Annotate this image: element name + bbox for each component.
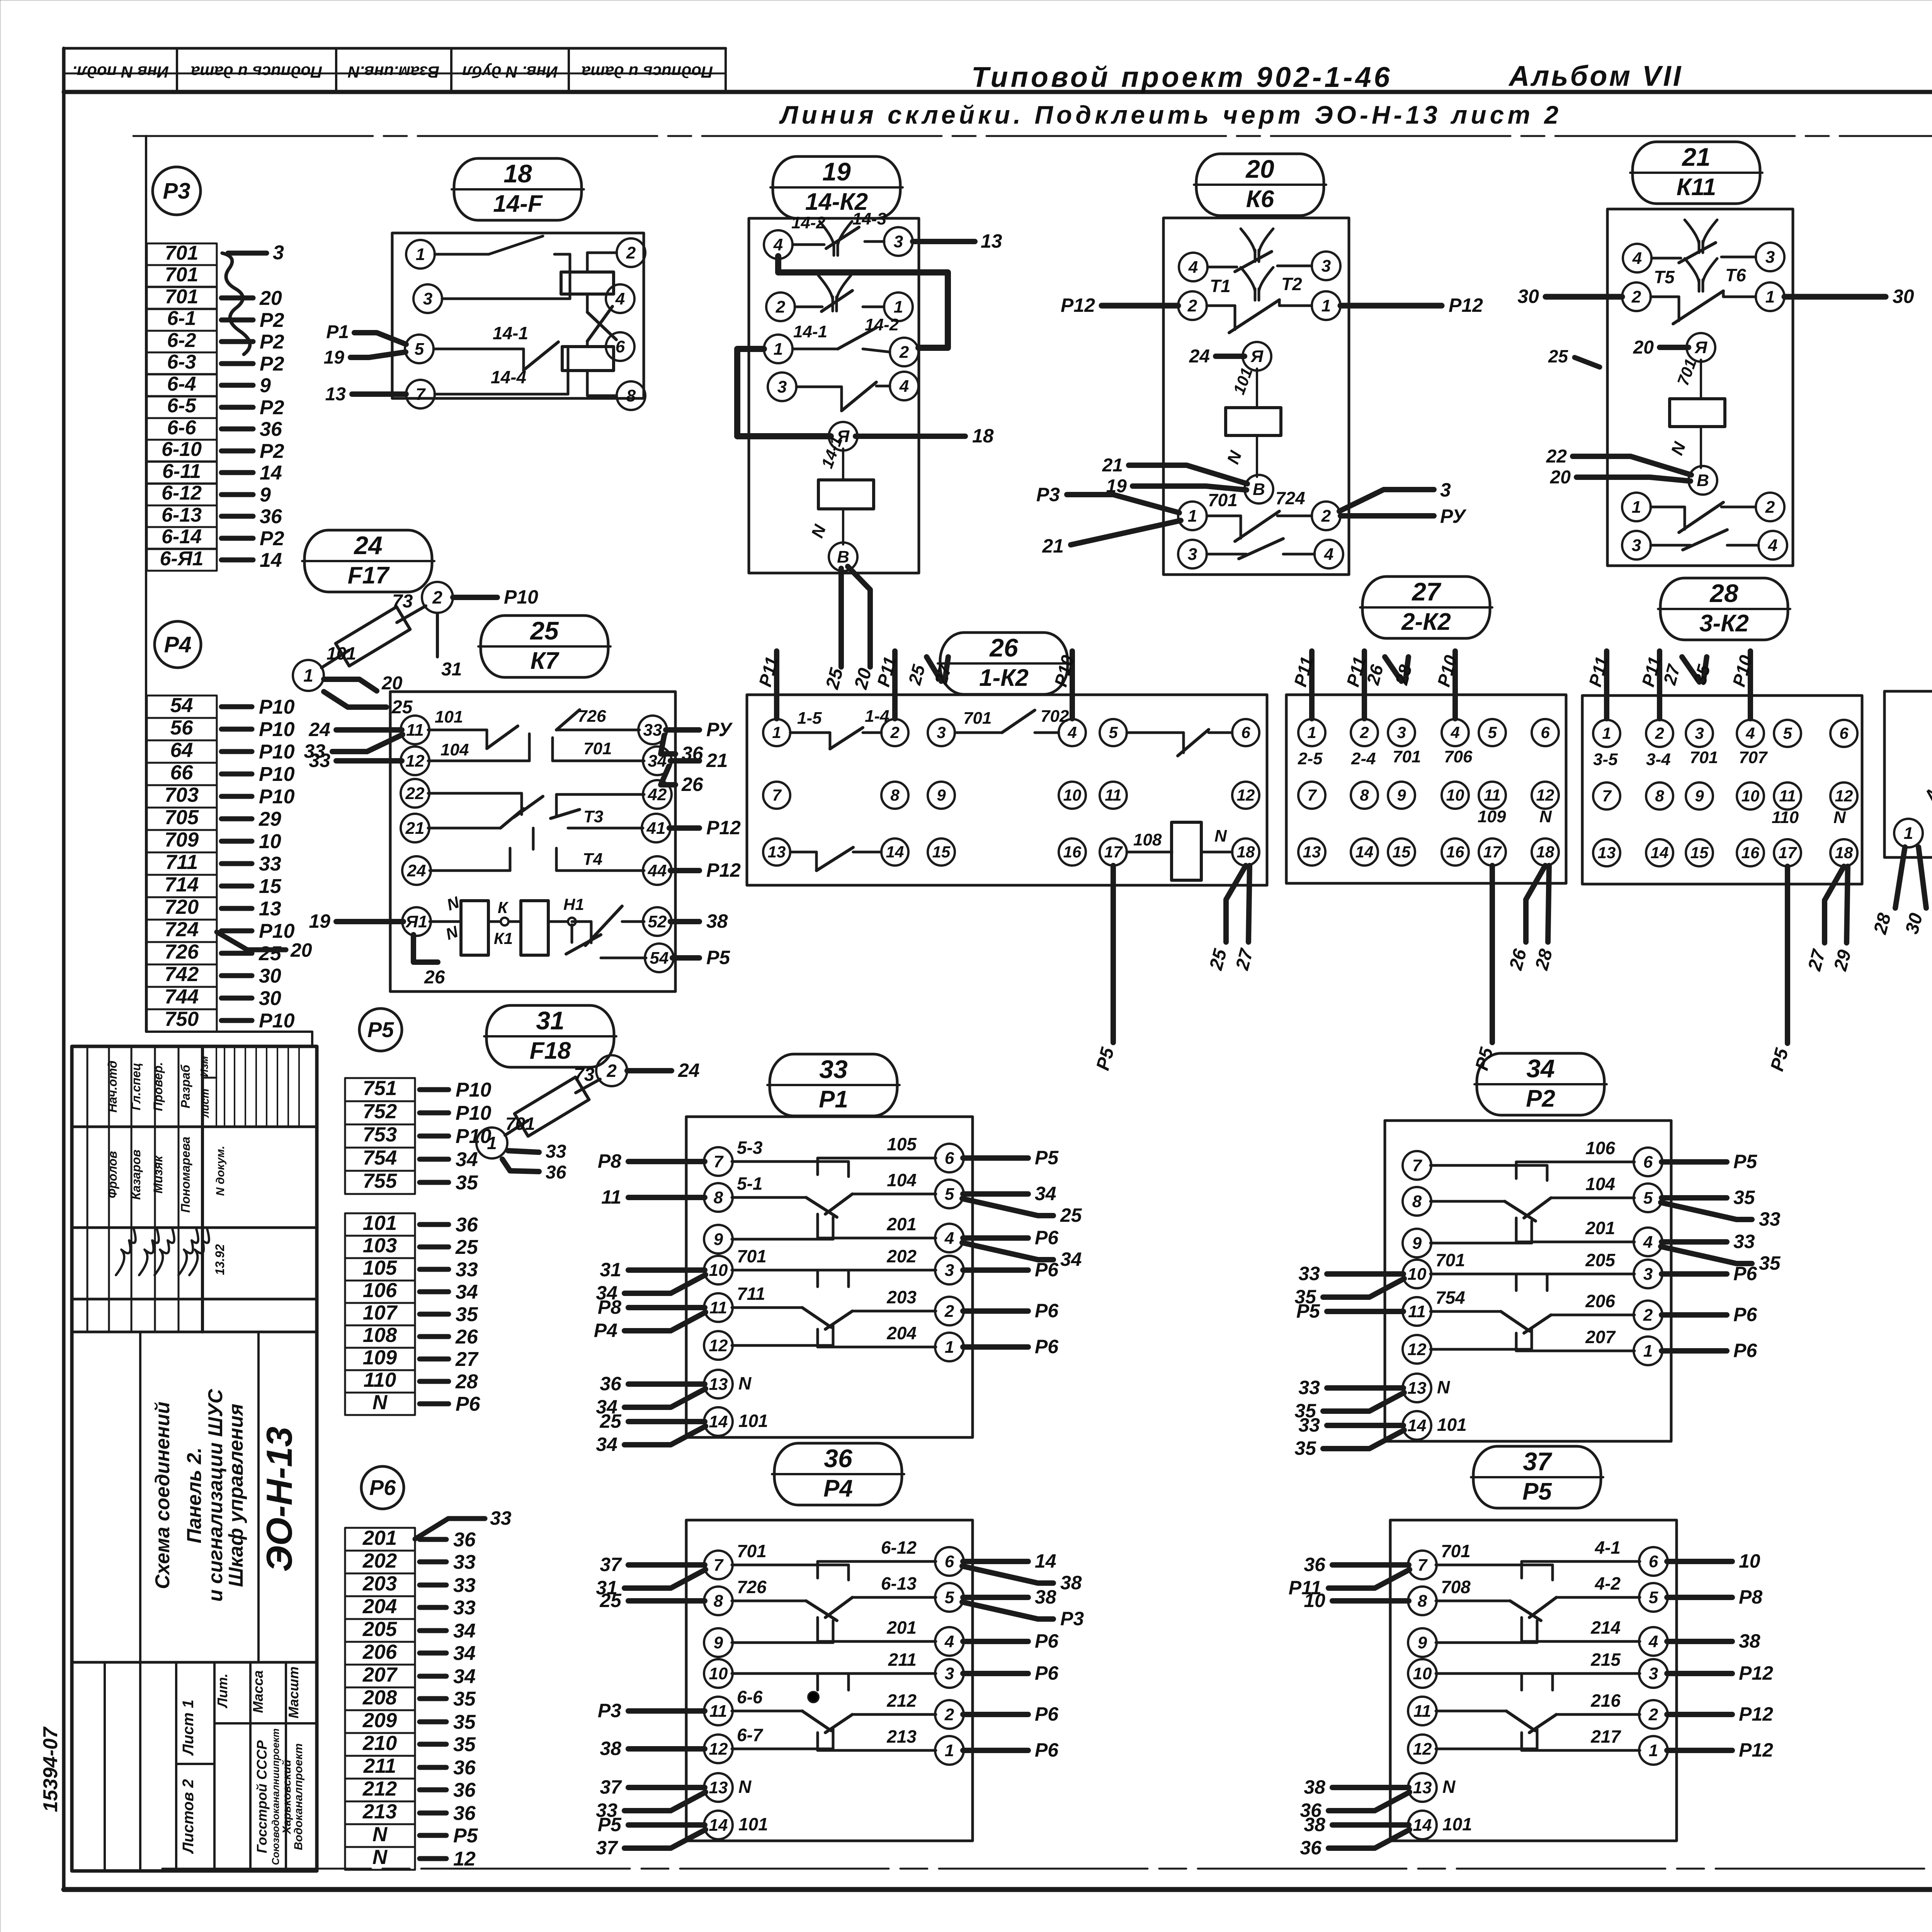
svg-text:25: 25: [529, 616, 559, 645]
svg-text:5: 5: [945, 1185, 954, 1204]
svg-text:Р3: Р3: [1060, 1608, 1084, 1629]
svg-text:Р6: Р6: [1035, 1259, 1059, 1281]
svg-text:14: 14: [709, 1412, 728, 1431]
svg-text:Р5: Р5: [453, 1825, 478, 1847]
glue line rule: [133, 135, 1932, 137]
relay block 25 (К7): [304, 692, 741, 992]
svg-text:12: 12: [709, 1336, 728, 1355]
svg-text:10: 10: [259, 830, 281, 853]
svg-text:9: 9: [714, 1230, 723, 1249]
svg-text:211: 211: [363, 1755, 396, 1777]
svg-text:Р8: Р8: [598, 1150, 621, 1172]
svg-text:Р2: Р2: [1526, 1085, 1555, 1112]
svg-text:14: 14: [709, 1816, 728, 1835]
svg-text:Харьковский: Харьковский: [281, 1760, 293, 1835]
svg-text:25: 25: [599, 1410, 622, 1432]
svg-text:Р2: Р2: [260, 527, 284, 550]
svg-text:Р6: Р6: [1035, 1739, 1059, 1761]
svg-text:Нач.отд: Нач.отд: [105, 1061, 119, 1113]
fuse block 31 (F18) body: [476, 1055, 700, 1158]
block tag oval 18 (14-F): [452, 158, 584, 220]
svg-text:33: 33: [456, 1259, 478, 1281]
svg-text:1: 1: [1904, 824, 1913, 843]
svg-text:36: 36: [260, 418, 282, 440]
svg-text:27: 27: [455, 1348, 479, 1371]
svg-text:13: 13: [1303, 843, 1321, 861]
svg-text:25: 25: [599, 1590, 622, 1611]
svg-text:6-4: 6-4: [167, 373, 196, 395]
svg-text:3: 3: [777, 378, 787, 396]
svg-text:1: 1: [945, 1338, 954, 1357]
svg-text:711: 711: [737, 1284, 765, 1304]
svg-text:14-F: 14-F: [493, 190, 543, 217]
svg-text:217: 217: [1590, 1726, 1621, 1747]
svg-text:38: 38: [706, 910, 728, 932]
svg-text:11: 11: [406, 721, 424, 740]
svg-text:708: 708: [1441, 1577, 1471, 1597]
svg-text:16: 16: [1446, 843, 1464, 861]
block tag oval 20 (К6): [1194, 154, 1326, 216]
svg-text:24: 24: [308, 719, 330, 740]
svg-text:11: 11: [1413, 1702, 1431, 1721]
svg-text:N: N: [738, 1373, 752, 1393]
svg-text:Р12: Р12: [706, 817, 741, 838]
svg-text:6-1: 6-1: [167, 307, 196, 330]
svg-text:16: 16: [1742, 844, 1760, 862]
svg-text:104: 104: [1585, 1174, 1615, 1194]
svg-text:14: 14: [260, 462, 282, 484]
svg-text:13: 13: [709, 1778, 728, 1797]
svg-text:18: 18: [503, 159, 532, 188]
svg-text:18: 18: [972, 425, 994, 447]
svg-text:26: 26: [989, 633, 1019, 662]
svg-text:201: 201: [362, 1527, 397, 1549]
svg-text:5: 5: [1649, 1588, 1658, 1607]
svg-text:3: 3: [1188, 545, 1197, 564]
svg-text:101: 101: [363, 1212, 397, 1235]
svg-text:12: 12: [1413, 1740, 1432, 1759]
svg-text:701: 701: [737, 1246, 767, 1266]
svg-text:41: 41: [646, 819, 666, 838]
svg-text:8: 8: [890, 786, 900, 804]
svg-text:12: 12: [1536, 786, 1554, 804]
svg-text:6-3: 6-3: [167, 351, 196, 373]
svg-text:4-2: 4-2: [1595, 1573, 1621, 1594]
svg-text:36: 36: [453, 1529, 476, 1551]
svg-text:6: 6: [1541, 723, 1550, 742]
svg-text:36: 36: [453, 1757, 476, 1779]
svg-text:4: 4: [1768, 536, 1777, 555]
svg-text:8: 8: [626, 386, 636, 405]
svg-text:2: 2: [1359, 723, 1369, 742]
svg-text:7: 7: [1418, 1556, 1428, 1575]
svg-text:206: 206: [1585, 1291, 1615, 1311]
svg-text:9: 9: [1397, 786, 1406, 804]
left inner vertical line: [146, 136, 312, 1046]
svg-text:101: 101: [1437, 1415, 1467, 1435]
svg-text:Лит.: Лит.: [214, 1673, 230, 1709]
svg-text:31: 31: [536, 1006, 564, 1035]
svg-text:34: 34: [1526, 1054, 1554, 1083]
svg-text:14: 14: [886, 843, 904, 861]
socket block 34 (Р2): [1294, 1121, 1781, 1459]
svg-text:3: 3: [1321, 257, 1331, 276]
svg-text:6: 6: [1241, 723, 1250, 742]
svg-text:56: 56: [170, 716, 193, 739]
svg-text:73: 73: [574, 1065, 595, 1085]
svg-text:3: 3: [894, 232, 903, 251]
svg-text:203: 203: [362, 1572, 397, 1595]
svg-text:1: 1: [1765, 287, 1775, 306]
svg-text:Подпись и дата: Подпись и дата: [191, 63, 322, 81]
svg-text:3-4: 3-4: [1646, 750, 1671, 769]
svg-text:105: 105: [887, 1134, 917, 1154]
svg-text:703: 703: [165, 784, 199, 806]
svg-text:7: 7: [1307, 786, 1317, 804]
svg-text:2: 2: [1655, 724, 1664, 742]
svg-text:214: 214: [1590, 1617, 1621, 1638]
svg-text:701: 701: [1393, 747, 1421, 766]
svg-text:33: 33: [259, 853, 281, 875]
svg-text:14-1: 14-1: [493, 323, 528, 343]
svg-text:25: 25: [1060, 1204, 1082, 1226]
svg-text:N: N: [1442, 1777, 1456, 1797]
svg-text:38: 38: [1035, 1586, 1056, 1608]
svg-text:10: 10: [709, 1664, 728, 1683]
svg-text:201: 201: [886, 1617, 917, 1638]
svg-text:201: 201: [886, 1214, 917, 1234]
svg-text:750: 750: [165, 1008, 199, 1031]
svg-text:Р4: Р4: [823, 1475, 853, 1502]
svg-text:706: 706: [1444, 747, 1473, 766]
svg-text:701: 701: [165, 264, 199, 286]
svg-text:4: 4: [1648, 1632, 1658, 1651]
svg-text:22: 22: [405, 784, 425, 803]
svg-text:1: 1: [1188, 507, 1197, 526]
block 21 stub labels 20 25: [1548, 346, 1600, 367]
terminal P3 circle: [153, 167, 201, 215]
svg-text:15: 15: [1690, 844, 1709, 862]
svg-text:701: 701: [505, 1114, 535, 1134]
svg-text:2: 2: [1765, 498, 1775, 517]
svg-text:34: 34: [453, 1620, 476, 1642]
svg-text:Р6: Р6: [1035, 1336, 1059, 1357]
svg-text:207: 207: [362, 1663, 398, 1686]
svg-text:754: 754: [1435, 1287, 1465, 1308]
svg-text:33: 33: [453, 1597, 476, 1619]
svg-text:1: 1: [774, 340, 783, 359]
svg-text:4: 4: [899, 377, 909, 396]
svg-text:204: 204: [362, 1595, 397, 1618]
svg-text:110: 110: [1772, 808, 1799, 827]
svg-text:701: 701: [1435, 1250, 1465, 1270]
svg-text:106: 106: [363, 1279, 397, 1302]
svg-text:13: 13: [709, 1375, 728, 1394]
svg-text:Р2: Р2: [260, 309, 284, 332]
svg-text:N докум.: N докум.: [214, 1146, 227, 1196]
svg-text:Р10: Р10: [259, 786, 295, 808]
svg-text:38: 38: [600, 1738, 621, 1759]
svg-text:110: 110: [364, 1369, 396, 1391]
svg-text:1: 1: [945, 1741, 954, 1760]
block tag oval 36 (Р4): [772, 1443, 904, 1505]
svg-text:6-13: 6-13: [162, 504, 202, 526]
svg-text:709: 709: [165, 828, 199, 851]
svg-text:35: 35: [1733, 1187, 1755, 1208]
svg-text:20: 20: [1245, 155, 1274, 183]
svg-text:Инв. N дубл: Инв. N дубл: [462, 63, 558, 81]
svg-text:10: 10: [709, 1261, 728, 1280]
svg-text:1: 1: [1649, 1741, 1658, 1760]
svg-text:33: 33: [1298, 1263, 1320, 1284]
svg-text:10: 10: [1304, 1590, 1325, 1611]
svg-text:701: 701: [583, 739, 612, 758]
svg-text:Р6: Р6: [1733, 1263, 1757, 1284]
svg-text:14-2: 14-2: [865, 315, 899, 334]
svg-text:Шкаф управления: Шкаф управления: [225, 1404, 247, 1587]
svg-text:26: 26: [424, 967, 445, 988]
svg-text:25: 25: [259, 942, 282, 965]
svg-text:2: 2: [1643, 1306, 1653, 1325]
svg-text:5-1: 5-1: [737, 1173, 762, 1194]
svg-text:17: 17: [1779, 844, 1797, 862]
svg-text:Р5: Р5: [1733, 1151, 1757, 1172]
svg-text:714: 714: [165, 873, 199, 896]
svg-text:10: 10: [1408, 1265, 1427, 1284]
socket block 33 (Р1): [594, 1117, 1082, 1455]
svg-text:N: N: [1539, 807, 1552, 826]
svg-text:66: 66: [170, 761, 193, 784]
svg-text:17: 17: [1104, 843, 1123, 861]
svg-text:702: 702: [1041, 707, 1069, 726]
svg-text:14-3: 14-3: [852, 209, 886, 228]
svg-text:12: 12: [1835, 787, 1853, 805]
svg-text:Р5: Р5: [1035, 1147, 1059, 1168]
svg-text:33: 33: [1298, 1414, 1320, 1436]
svg-text:3-5: 3-5: [1593, 750, 1618, 769]
svg-text:109: 109: [1478, 807, 1506, 826]
svg-text:Р5: Р5: [1522, 1478, 1552, 1505]
svg-text:14: 14: [260, 549, 282, 571]
svg-text:6: 6: [1643, 1153, 1653, 1172]
svg-text:34: 34: [453, 1642, 476, 1665]
svg-text:35: 35: [1294, 1437, 1316, 1459]
svg-text:726: 726: [578, 707, 606, 726]
archive number 15394-07: [39, 1726, 62, 1812]
svg-text:4: 4: [1745, 724, 1755, 742]
svg-text:35: 35: [456, 1303, 478, 1326]
svg-text:5: 5: [1643, 1189, 1653, 1207]
svg-text:38: 38: [1060, 1572, 1082, 1594]
socket block 37 (Р5): [1289, 1520, 1773, 1859]
terminal strip P5 rows: [345, 1077, 492, 1415]
svg-text:210: 210: [362, 1732, 397, 1755]
svg-text:216: 216: [1590, 1690, 1621, 1711]
terminal P5 circle: [359, 1009, 402, 1051]
svg-text:Схема соединений: Схема соединений: [151, 1401, 174, 1589]
svg-text:1: 1: [1602, 724, 1611, 742]
socket block 36 (Р4): [596, 1520, 1084, 1859]
svg-text:3: 3: [1643, 1265, 1653, 1284]
svg-text:36: 36: [1304, 1554, 1326, 1575]
svg-text:3: 3: [1632, 536, 1641, 555]
svg-text:753: 753: [363, 1123, 397, 1146]
svg-text:105: 105: [363, 1257, 398, 1279]
svg-text:12: 12: [453, 1848, 476, 1870]
svg-text:10: 10: [1739, 1550, 1760, 1572]
svg-text:К11: К11: [1677, 174, 1716, 201]
svg-text:6-2: 6-2: [167, 329, 196, 352]
svg-text:73: 73: [392, 591, 413, 612]
svg-text:744: 744: [165, 985, 199, 1008]
block tag oval 19 (14-К2): [770, 156, 903, 218]
svg-text:3: 3: [1397, 723, 1406, 742]
svg-text:13: 13: [981, 230, 1002, 252]
svg-text:13: 13: [1598, 844, 1616, 862]
svg-text:В: В: [1253, 480, 1265, 499]
socket block 26 (1-К2): [747, 651, 1267, 1073]
svg-text:20: 20: [1633, 337, 1654, 358]
svg-text:3-К2: 3-К2: [1699, 610, 1749, 637]
svg-text:35: 35: [453, 1688, 476, 1710]
svg-text:211: 211: [888, 1650, 917, 1670]
svg-text:8: 8: [1418, 1592, 1427, 1611]
svg-text:37: 37: [596, 1837, 618, 1859]
svg-text:6: 6: [1649, 1552, 1658, 1571]
svg-text:29: 29: [259, 808, 281, 830]
svg-text:20: 20: [290, 939, 312, 961]
svg-text:8: 8: [714, 1188, 723, 1207]
svg-text:2: 2: [899, 343, 909, 362]
block tag oval 27 (2-К2): [1360, 577, 1492, 638]
svg-text:2: 2: [944, 1705, 954, 1724]
svg-text:3: 3: [945, 1664, 954, 1683]
svg-text:Взам.инв.N: Взам.инв.N: [347, 63, 439, 81]
title: Типовой проект 902-1-46 Альбом VII: [971, 60, 1683, 93]
svg-text:207: 207: [1585, 1327, 1616, 1347]
svg-text:Р5: Р5: [1296, 1300, 1320, 1322]
svg-text:Мизяк: Мизяк: [151, 1155, 165, 1193]
svg-text:17: 17: [1483, 843, 1502, 861]
svg-text:4: 4: [944, 1229, 954, 1248]
svg-text:Р10: Р10: [259, 763, 295, 786]
svg-text:34: 34: [456, 1148, 478, 1171]
svg-text:52: 52: [648, 912, 667, 931]
svg-text:705: 705: [165, 806, 199, 829]
svg-text:2: 2: [606, 1061, 617, 1081]
svg-text:Р5: Р5: [598, 1814, 622, 1835]
svg-text:21: 21: [706, 750, 728, 771]
svg-text:Союзводоканалниипроект: Союзводоканалниипроект: [270, 1728, 281, 1865]
svg-text:Водоканалпроект: Водоканалпроект: [292, 1743, 305, 1850]
svg-text:24: 24: [353, 531, 382, 560]
svg-text:35: 35: [456, 1172, 478, 1194]
svg-text:Р10: Р10: [259, 718, 295, 741]
svg-text:5: 5: [1109, 723, 1118, 742]
svg-text:204: 204: [886, 1323, 917, 1343]
svg-text:14: 14: [1413, 1816, 1432, 1835]
svg-text:38: 38: [1739, 1630, 1760, 1652]
svg-text:Р10: Р10: [259, 920, 295, 942]
svg-text:724: 724: [165, 918, 199, 941]
svg-text:20: 20: [1550, 467, 1571, 488]
svg-text:54: 54: [170, 694, 193, 717]
svg-text:14: 14: [1035, 1550, 1056, 1572]
svg-text:28: 28: [455, 1371, 478, 1393]
svg-text:4: 4: [1643, 1233, 1653, 1252]
svg-text:9: 9: [937, 786, 946, 804]
svg-text:24: 24: [407, 861, 426, 880]
svg-text:F17: F17: [348, 562, 390, 589]
svg-text:5: 5: [1488, 723, 1497, 742]
svg-text:Р6: Р6: [456, 1393, 481, 1415]
svg-text:6-6: 6-6: [737, 1687, 763, 1707]
svg-text:11: 11: [601, 1186, 621, 1208]
svg-text:14: 14: [1355, 843, 1374, 861]
svg-text:6-13: 6-13: [881, 1573, 917, 1594]
svg-text:2: 2: [1631, 287, 1641, 306]
svg-text:7: 7: [772, 786, 782, 804]
svg-text:203: 203: [886, 1287, 917, 1307]
svg-text:N: N: [738, 1777, 752, 1797]
svg-text:202: 202: [362, 1549, 397, 1572]
block tag oval 25 (К7): [478, 616, 611, 677]
relay block 29 (К12): [1870, 657, 1932, 937]
svg-text:6-12: 6-12: [162, 482, 202, 504]
svg-text:и сигнализации ШУС: и сигнализации ШУС: [204, 1388, 227, 1602]
svg-text:3: 3: [1440, 479, 1451, 501]
svg-text:Р12: Р12: [706, 859, 741, 881]
svg-text:Р10: Р10: [259, 1010, 295, 1032]
svg-text:Р1: Р1: [326, 322, 349, 342]
svg-text:34: 34: [453, 1665, 476, 1688]
svg-text:11: 11: [709, 1702, 727, 1721]
fuse block 24 (F17) body: [293, 582, 538, 691]
svg-text:711: 711: [165, 851, 198, 874]
svg-text:212: 212: [362, 1777, 397, 1800]
svg-text:7: 7: [1412, 1156, 1423, 1175]
svg-text:Р8: Р8: [1739, 1586, 1762, 1608]
svg-text:3: 3: [945, 1261, 954, 1280]
svg-text:31: 31: [600, 1259, 621, 1281]
svg-text:13: 13: [768, 843, 786, 861]
svg-text:21: 21: [1042, 535, 1064, 557]
terminal strip P4 rows: [147, 694, 312, 1032]
svg-text:1-4: 1-4: [865, 707, 889, 726]
svg-text:К1: К1: [494, 929, 513, 947]
relay block 21 (К11): [1517, 209, 1914, 566]
svg-text:28: 28: [1709, 579, 1738, 607]
svg-text:33: 33: [453, 1551, 476, 1573]
svg-text:8: 8: [714, 1592, 723, 1611]
svg-text:6: 6: [945, 1149, 954, 1168]
svg-text:37: 37: [600, 1776, 622, 1798]
svg-text:1-5: 1-5: [797, 709, 822, 728]
svg-text:Р10: Р10: [259, 741, 295, 763]
relay block 20 (К6): [1036, 218, 1483, 575]
svg-text:Р2: Р2: [260, 396, 284, 419]
svg-text:Р10: Р10: [456, 1102, 492, 1124]
svg-text:33: 33: [643, 721, 662, 740]
svg-text:208: 208: [362, 1686, 397, 1709]
svg-text:9: 9: [714, 1633, 723, 1652]
svg-text:33: 33: [1298, 1377, 1320, 1398]
svg-text:106: 106: [1585, 1138, 1615, 1158]
svg-text:9: 9: [260, 374, 271, 397]
svg-text:44: 44: [648, 861, 667, 880]
svg-text:10: 10: [1413, 1664, 1432, 1683]
svg-text:22: 22: [1546, 446, 1567, 467]
